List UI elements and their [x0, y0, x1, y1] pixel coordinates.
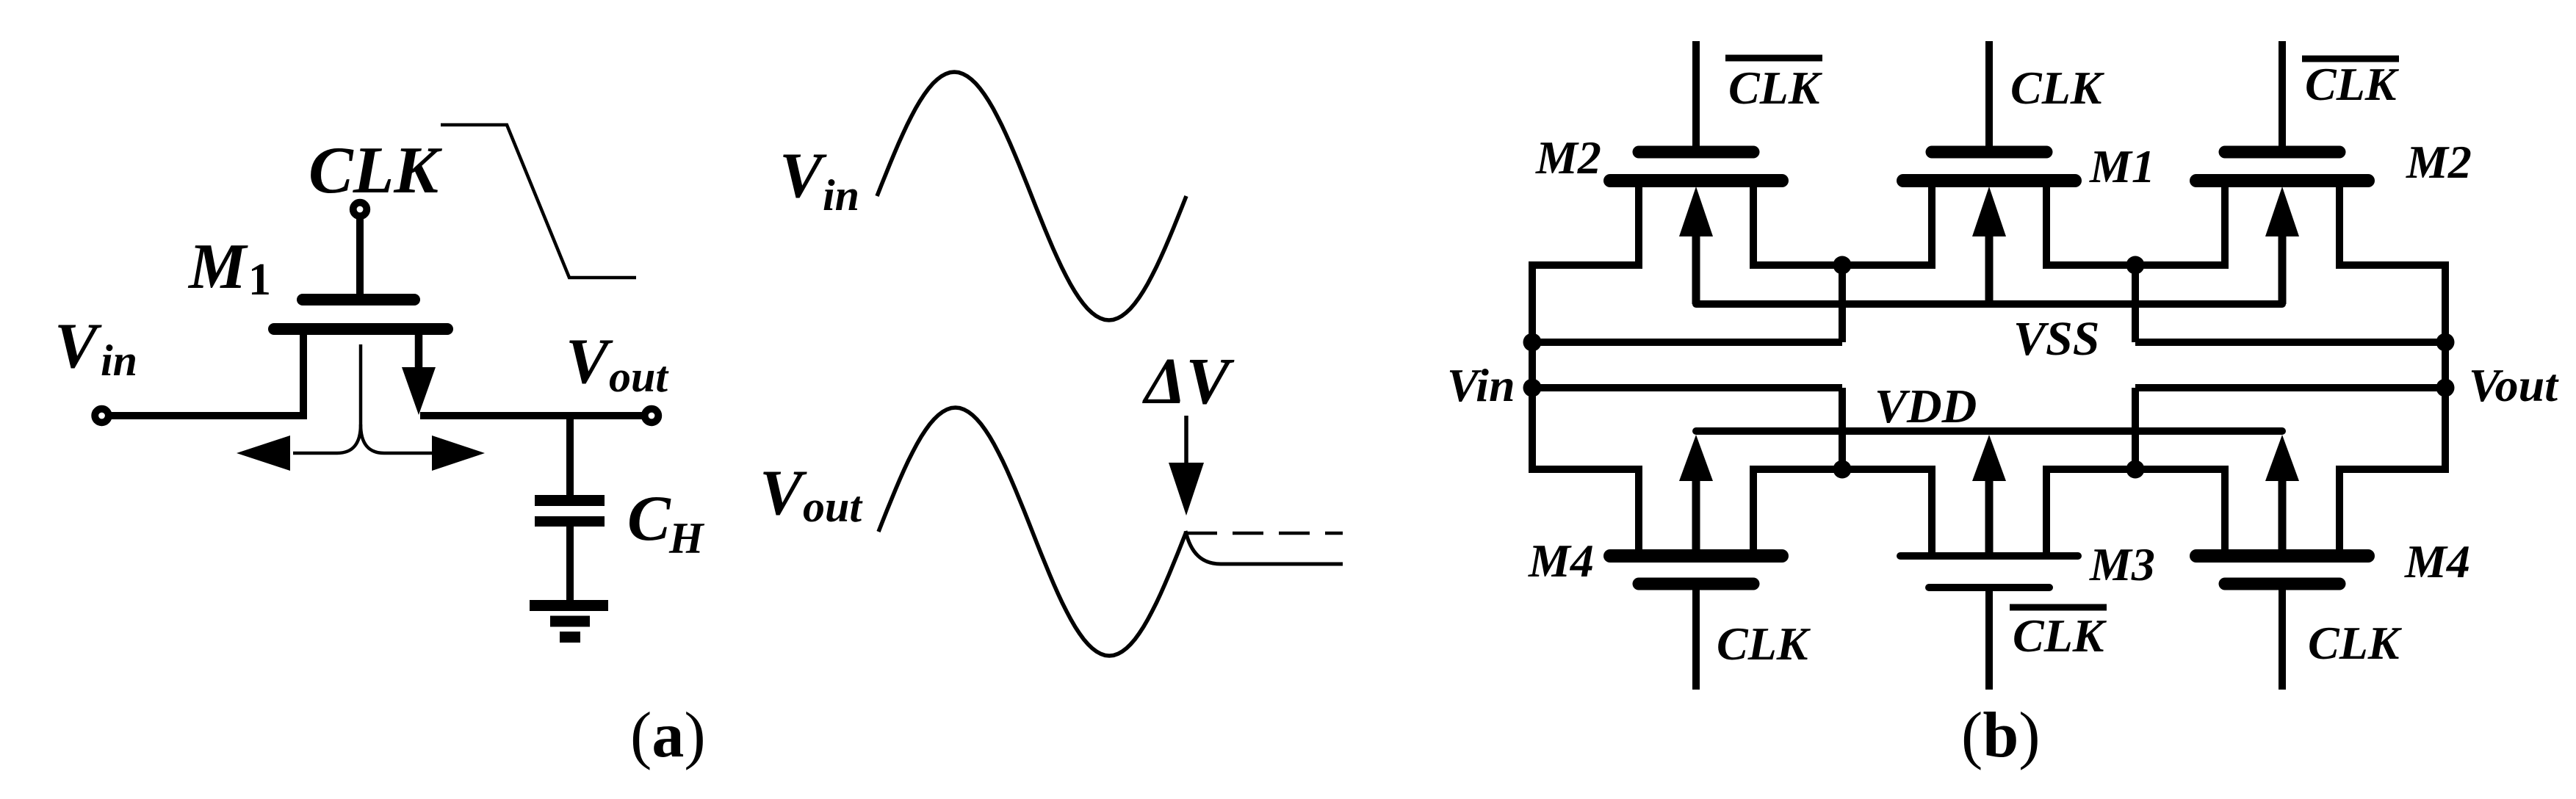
wire capacitor to ground [566, 525, 574, 602]
wire node B to bottom node [2132, 388, 2139, 469]
svg-text:H: H [668, 514, 705, 563]
svg-text:M2: M2 [2406, 136, 2472, 188]
transistor M1 left leg [1928, 181, 1935, 269]
transistor M2-right gate bar [2225, 146, 2339, 159]
transistor M2-right right leg [2336, 181, 2343, 269]
wire Vin junction [1529, 342, 1536, 388]
transistor M4-right left leg [2221, 466, 2229, 556]
wire Vout upper [2135, 339, 2445, 346]
transistor M2-left right leg [1750, 181, 1757, 269]
junction node B bottom [2126, 460, 2145, 479]
wire Vin upper [1532, 339, 1842, 346]
svg-text:VSS: VSS [2013, 312, 2099, 366]
transistor M3 gate wire [1985, 591, 1993, 690]
wire M1 drain to Vout [420, 412, 643, 419]
svg-text:M: M [187, 231, 248, 303]
svg-text:V: V [54, 311, 102, 382]
transistor M1 right leg [2043, 181, 2050, 269]
svg-text:(b): (b) [1961, 700, 2041, 771]
svg-text:CLK: CLK [2308, 617, 2403, 669]
svg-text:CLK: CLK [2010, 62, 2105, 114]
wire Vin lower [1532, 384, 1842, 391]
svg-text:Vout: Vout [2469, 359, 2559, 411]
delta-V arrow [1184, 416, 1188, 470]
svg-text:C: C [627, 483, 671, 554]
junction node Vin lower [1523, 379, 1542, 397]
capacitor CH bottom plate [535, 516, 605, 527]
svg-text:(a): (a) [630, 700, 706, 771]
waveform Vout hold settle curve [1186, 531, 1343, 564]
transistor M1 channel bar [1903, 174, 2075, 187]
transistor M4-right right leg [2336, 466, 2343, 556]
junction node Vin upper [1523, 333, 1542, 352]
junction node A bottom [1833, 460, 1852, 479]
transistor M1 gate bar [303, 294, 414, 305]
transistor M4-left gate bar [1639, 578, 1753, 590]
svg-text:V: V [566, 326, 613, 397]
transistor M1 source leg [300, 329, 307, 419]
svg-text:in: in [823, 171, 859, 220]
transistor M4-left left leg [1635, 466, 1642, 556]
svg-text:CLK: CLK [2305, 58, 2400, 110]
wire M4-right drain to Vout [2339, 388, 2445, 469]
transistor M2-right left leg [2221, 181, 2229, 269]
wire node A to bottom node [1839, 388, 1846, 469]
Vout terminal [645, 409, 659, 423]
transistor M4-right gate wire [2279, 587, 2286, 690]
wire Vin to M2-left source [1532, 265, 1639, 342]
svg-text:CLK: CLK [2013, 610, 2107, 662]
junction node B [2126, 256, 2145, 275]
transistor M3 gate bar [1929, 584, 2049, 591]
transistor M1 bulk arrow [1985, 234, 1994, 304]
transistor M2-left gate bar [1639, 146, 1753, 159]
transistor M4-left gate wire [1692, 587, 1700, 690]
CLK falling-edge waveform [441, 125, 636, 278]
svg-text:Vin: Vin [1447, 359, 1515, 411]
channel charge injection curve right branch [361, 424, 433, 453]
waveform Vout sine [878, 408, 1186, 656]
svg-text:V: V [779, 140, 827, 211]
transistor M4-left bulk arrow [1692, 478, 1700, 556]
transistor M4-right gate bar [2225, 578, 2339, 590]
waveform Vout ideal dashed line [1186, 532, 1343, 535]
svg-text:M4: M4 [2404, 535, 2470, 587]
transistor M3 channel bar [1900, 552, 2078, 560]
junction node Vout lower [2436, 379, 2455, 397]
wire M2-left drain to M1 source [1753, 261, 1932, 269]
transistor M1 drain leg with injection arrow [415, 329, 423, 371]
transistor M1 gate bar [1932, 146, 2046, 159]
transistor M2-left channel bar [1610, 174, 1782, 187]
VDD rail [1696, 427, 2282, 435]
svg-text:1: 1 [248, 255, 271, 305]
transistor M1 gate wire [1985, 41, 1993, 146]
svg-text:CLK: CLK [1728, 62, 1823, 114]
transistor M2-right channel bar [2196, 174, 2368, 187]
svg-text:out: out [609, 352, 669, 401]
capacitor CH top plate [535, 495, 605, 506]
VSS rail [1696, 300, 2282, 308]
transistor M3 left leg [1928, 466, 1935, 556]
junction node A [1833, 256, 1852, 275]
transistor M3 bulk arrow [1985, 478, 1994, 556]
junction node Vout upper [2436, 333, 2455, 352]
transistor M3 right leg [2043, 466, 2050, 556]
wire Vout junction [2442, 342, 2449, 388]
transistor M4-right bulk arrow [2279, 478, 2287, 556]
svg-text:in: in [101, 336, 137, 385]
svg-text:CLK: CLK [309, 133, 442, 207]
wire node B down [2132, 265, 2139, 342]
svg-text:VDD: VDD [1875, 380, 1977, 433]
svg-text:M2: M2 [1535, 131, 1601, 184]
svg-text:ΔV: ΔV [1142, 345, 1235, 418]
wire Vin to M1 source [111, 412, 303, 419]
wire M4-left drain to M3 source [1753, 466, 1932, 473]
wire M3 drain to M4-right source [2046, 466, 2225, 473]
transistor M4-left right leg [1750, 466, 1757, 556]
wire M1 drain to M2-right source [2046, 261, 2225, 269]
Vin terminal [95, 409, 109, 423]
transistor M2-right gate wire [2279, 41, 2286, 146]
transistor M1 channel bar [274, 323, 447, 335]
wire Vout lower [2135, 384, 2445, 391]
wire Vout to capacitor CH [566, 416, 574, 496]
transistor M2-right bulk arrow [2279, 234, 2287, 304]
svg-text:M1: M1 [2089, 140, 2155, 192]
svg-text:M4: M4 [1528, 535, 1594, 587]
wire M2-right drain to Vout [2339, 265, 2445, 342]
svg-text:out: out [803, 482, 863, 531]
transistor M4-right channel bar [2196, 549, 2368, 563]
transistor M2-left bulk arrow [1692, 234, 1700, 304]
svg-text:V: V [760, 458, 807, 529]
channel charge injection curve left branch [293, 344, 361, 453]
wire gate of M1 [356, 216, 364, 294]
wire node A to Vin line [1839, 265, 1846, 342]
transistor M2-left gate wire [1692, 41, 1700, 146]
CLK terminal [353, 203, 367, 217]
transistor M2-left left leg [1635, 181, 1642, 269]
svg-text:CLK: CLK [1717, 618, 1811, 670]
transistor M4-left channel bar [1610, 549, 1782, 563]
wire Vin to M4-left source [1532, 388, 1639, 469]
waveform Vin sine [877, 72, 1186, 320]
svg-text:M3: M3 [2089, 538, 2155, 590]
ground [530, 600, 608, 611]
